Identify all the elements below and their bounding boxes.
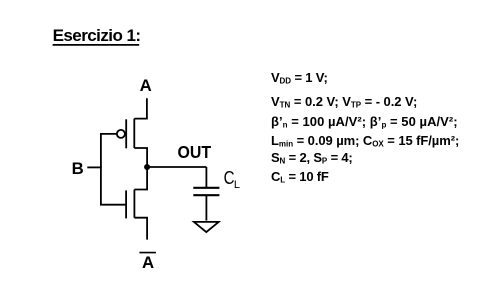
title "Esercizio 1:" xyxy=(53,27,141,44)
parameter text line 6: CL xyxy=(271,170,329,188)
wire capacitor bottom lead xyxy=(205,195,207,220)
parameter text line 1: VDD = 1 V; xyxy=(271,71,328,89)
wire gate rail (bubble to left rail down to NMOS gate) xyxy=(101,134,126,205)
wire capacitor top lead xyxy=(205,167,207,188)
svg-text:B: B xyxy=(72,159,84,178)
label A-bar overline xyxy=(139,252,156,254)
wire from A to PMOS drain xyxy=(134,98,147,118)
transistor M2 NMOS channel xyxy=(133,190,135,218)
wire PMOS source to OUT node xyxy=(134,148,147,167)
transistor M2 NMOS gate bar xyxy=(125,190,127,218)
capacitor CL top plate xyxy=(193,187,219,189)
svg-text:C: C xyxy=(224,168,235,188)
ground symbol xyxy=(194,222,219,232)
svg-text:OUT: OUT xyxy=(178,142,212,162)
capacitor CL bottom plate xyxy=(193,194,219,196)
wire NMOS drain to OUT node xyxy=(134,167,147,190)
title underline xyxy=(53,44,140,46)
parameter text line 5: SN SP xyxy=(271,151,353,169)
svg-text:A: A xyxy=(142,253,154,272)
wire NMOS source to A-bar xyxy=(134,218,147,240)
wire B lead xyxy=(87,166,102,168)
node OUT junction dot xyxy=(144,164,150,170)
parameter text line 3: beta'n / beta'p xyxy=(271,115,458,133)
transistor M1 PMOS channel xyxy=(133,119,135,148)
svg-text:A: A xyxy=(140,76,152,95)
parameter text line 4: Lmin / Cox xyxy=(271,134,459,152)
transistor M1 PMOS gate bar xyxy=(125,119,127,148)
wire OUT node to capacitor xyxy=(147,166,206,168)
svg-text:L: L xyxy=(234,179,240,191)
PMOS gate bubble xyxy=(117,130,125,138)
parameter text line 2: VTN / VTP xyxy=(271,95,417,113)
